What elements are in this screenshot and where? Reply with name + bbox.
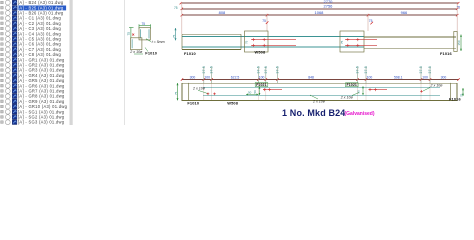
svg-text:37.5: 37.5 [264,66,268,73]
svg-text:75: 75 [369,19,373,23]
svg-text:598.1: 598.1 [394,75,403,79]
plan dim line [182,79,459,81]
svg-text:75: 75 [172,34,176,38]
svg-text:F1016: F1016 [449,97,461,102]
svg-text:F1021: F1021 [347,83,357,87]
svg-text:100: 100 [422,75,428,79]
tree row GR10 [1,104,68,109]
svg-text:75: 75 [174,6,178,10]
svg-text:100: 100 [367,75,373,79]
tree row B25 [1,5,67,10]
plan mid h-dim 50 [246,93,259,95]
tree row GR6 [1,83,65,88]
svg-text:2 x 10ø: 2 x 10ø [312,99,326,103]
svg-text:1068: 1068 [315,10,325,15]
tree row C1 [1,16,62,21]
leader t=5mm [146,39,151,42]
svg-text:50: 50 [253,90,257,94]
tree row C2 [1,21,62,26]
plan beam outline [182,83,457,100]
svg-text:W508: W508 [255,50,266,55]
svg-text:37.5: 37.5 [210,66,214,73]
plan holes left [207,93,216,96]
tree row C5 [1,37,62,42]
panel divider [123,0,125,125]
plan end plate verticals [188,83,190,101]
svg-text:W508: W508 [227,100,238,105]
section label F1010 [145,48,148,52]
svg-text:75: 75 [340,40,344,44]
hole arrows right cluster [345,38,377,47]
svg-text:50: 50 [357,90,361,94]
section lower square [131,38,142,50]
svg-text:F1021: F1021 [256,83,266,87]
svg-text:75: 75 [174,91,178,95]
svg-text:150: 150 [457,40,461,45]
svg-text:50: 50 [248,91,252,95]
tree row GR7 [1,89,65,94]
75 offset dim left [266,21,269,24]
svg-text:F1016: F1016 [440,51,452,56]
right end plate F1016 [454,32,457,52]
svg-text:2 x 10ø: 2 x 10ø [430,84,444,88]
right fitting box [340,31,364,52]
plan right height dim [462,88,464,96]
hole arrows left cluster [251,38,296,47]
dim line 808/1068/966 [182,14,457,16]
svg-text:[A] - SG3 (A3) 01.dwg: [A] - SG3 (A3) 01.dwg [18,120,65,125]
tree row C7 [1,47,62,52]
svg-text:37.5: 37.5 [419,66,423,73]
plan dim ticks [181,78,460,80]
plan mid holes with red leader [263,89,282,91]
tree row GR3 [1,68,65,73]
plan dim extension verticals [204,67,430,84]
beam olive outline left [182,33,241,35]
svg-text:F1010: F1010 [187,100,199,105]
tree row GR2 [1,63,65,68]
left beam height dim 75 [175,28,177,40]
section dim 75 top [139,24,151,28]
plan right holes with red leader [369,89,388,91]
svg-text:F1010: F1010 [145,51,157,56]
panel scrollbar [70,0,73,125]
tree row C8 [1,52,62,57]
svg-text:75: 75 [142,22,146,26]
plan right v-dim 50 [362,86,364,95]
plan rotated tick texts [202,66,432,73]
section dim 75 left vertical [129,28,134,39]
tree row C6 [1,42,62,47]
plan inner teal lines [203,86,440,88]
svg-text:2 x 10ø: 2 x 10ø [192,86,206,90]
tree row SG3 [1,120,65,125]
svg-text:300: 300 [441,75,447,79]
svg-text:808: 808 [219,10,226,15]
svg-text:622.5: 622.5 [231,75,240,79]
svg-text:300: 300 [190,75,196,79]
beam teal lines [182,36,364,38]
svg-text:(Galvanised): (Galvanised) [345,111,375,117]
svg-text:37.5: 37.5 [256,66,260,73]
plan dim values [190,75,447,79]
tree row GR8 [1,94,65,99]
washer plate W508 [245,31,269,52]
svg-text:37.5: 37.5 [202,66,206,73]
tree row C4 [1,31,62,36]
dim line 2770 [181,2,458,4]
tree row B24 [1,0,64,5]
right beam height dim [460,35,462,52]
tree row C3 [1,26,62,31]
svg-text:966: 966 [401,10,408,15]
tree row GR9 [1,99,65,104]
svg-text:37.5: 37.5 [356,66,360,73]
svg-text:100: 100 [204,75,210,79]
tree row SG2 [1,115,65,120]
extension verticals [182,2,457,34]
tree row GR1 [1,57,65,62]
svg-text:100: 100 [259,75,265,79]
svg-text:37.5: 37.5 [276,66,280,73]
tree row GR5 [1,78,65,83]
svg-text:2756: 2756 [324,3,334,8]
svg-text:1 No. Mkd B24: 1 No. Mkd B24 [282,108,345,118]
svg-text:75: 75 [262,19,266,23]
dim line 2756 [182,8,457,10]
svg-text:2 x 10ø: 2 x 10ø [340,95,354,99]
tree row GR4 [1,73,65,78]
svg-text:t = 5mm: t = 5mm [152,40,165,44]
svg-text:848: 848 [308,75,314,79]
plan F1021 box left [255,83,268,87]
beam olive outline right [364,36,456,38]
75 offset dim right [370,22,373,25]
svg-text:37.5: 37.5 [364,66,368,73]
plan left height dim [177,83,179,100]
tree row SG1 [1,109,65,114]
drawing list panel [1,0,68,125]
svg-text:37.5: 37.5 [428,66,432,73]
tree row B26 [1,11,64,16]
section red tick [132,34,134,36]
svg-text:75: 75 [127,32,131,36]
svg-text:75: 75 [245,40,249,44]
plan mid v-dim 50 [259,87,261,95]
svg-text:F1010: F1010 [184,51,196,56]
section upper square [139,28,150,40]
svg-text:2 x 10ø: 2 x 10ø [129,50,143,54]
plan F1021 box right [346,83,359,87]
